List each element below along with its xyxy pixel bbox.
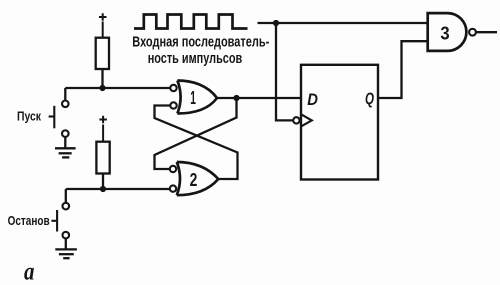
wire cross-coupling gate1out to gate2 [155, 98, 237, 169]
label 1 [190, 88, 196, 109]
svg-text:ность импульсов: ность импульсов [148, 51, 243, 67]
plus supply V1 [99, 13, 107, 38]
wire 2 (Ostanov line to gate 2 input) [66, 188, 170, 190]
svg-text:Q: Q [365, 90, 375, 109]
wire switch to ground 1 [64, 137, 66, 148]
wire 1 (Pusk line to gate 1 input) [65, 87, 170, 89]
wire down to switch 2 [65, 189, 67, 203]
gate 2 input bubbles [170, 166, 176, 192]
D flip-flop U2 body [301, 65, 378, 180]
svg-text:3: 3 [440, 22, 449, 43]
pin label Q [365, 90, 375, 109]
svg-text:а: а [24, 257, 35, 285]
wire D input [237, 97, 302, 99]
gate 3 output bubble [469, 29, 476, 36]
wire down to switch [64, 88, 66, 101]
plus supply V2 [99, 116, 107, 142]
pin label D [307, 91, 318, 109]
label a (figure letter) [24, 257, 35, 285]
wire Q to gate 3 [378, 41, 428, 98]
svg-text:Входная последователь-: Входная последователь- [132, 34, 269, 50]
clock inversion bubble [293, 117, 299, 123]
svg-text:2: 2 [190, 170, 198, 190]
wire clock vertical [276, 23, 293, 120]
clock edge triangle [302, 115, 312, 127]
ground GND2 [55, 249, 77, 258]
label 3 [440, 22, 449, 43]
svg-text:Пуск: Пуск [17, 109, 41, 124]
node junction wire1 [99, 85, 105, 91]
svg-text:Останов: Останов [8, 214, 50, 228]
switch SB2 Ostanov [51, 203, 69, 239]
switch SB1 Pusk [49, 101, 69, 137]
resistor R2 [96, 142, 109, 174]
input pulse waveform [134, 15, 248, 29]
wire switch2 to ground 2 [65, 238, 67, 249]
gate 1 output wire [217, 97, 237, 99]
svg-text:D: D [307, 91, 318, 109]
wire R1 to node [101, 69, 103, 88]
svg-text:1: 1 [190, 88, 196, 109]
resistor R1 [96, 38, 109, 69]
wire R2 to node [102, 174, 104, 190]
node junction clock [273, 20, 279, 26]
ground GND1 [55, 148, 76, 157]
gate 3 body (NAND) [428, 13, 467, 51]
gate 2 body [177, 162, 219, 195]
wire cross-coupling gate2out to gate1 [155, 106, 238, 180]
node junction wire2 [100, 186, 106, 192]
gate 1 body [177, 81, 217, 114]
label 2 [190, 170, 198, 190]
top wire (clock line to gate 3) [258, 22, 428, 24]
gate 1 input bubbles [170, 85, 176, 109]
node junction gate1 out [233, 95, 239, 101]
gate 3 output wire [476, 31, 497, 33]
